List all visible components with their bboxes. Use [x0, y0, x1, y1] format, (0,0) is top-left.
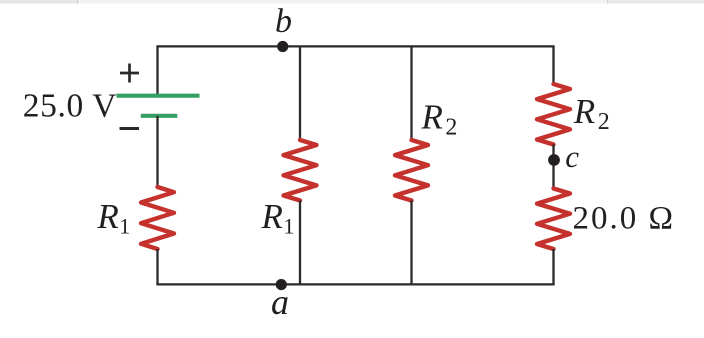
- wire branch 2 top (top wire to R1 mid): [299, 46, 301, 140]
- battery plus sign: [120, 64, 139, 83]
- svg-text:a: a: [271, 282, 289, 322]
- top gray bar divider 2: [607, 0, 608, 4]
- resistor R1 left (zigzag): [141, 187, 174, 249]
- wire right branch top (top wire to R2 right): [552, 46, 554, 84]
- wire branch 2 bottom (R1 mid to bottom wire): [299, 201, 301, 285]
- resistor 20.0 ohm right (zigzag): [537, 189, 570, 250]
- top gray bar left segment: [0, 0, 77, 4]
- svg-text:20.0 Ω: 20.0 Ω: [573, 201, 676, 237]
- battery B1 negative short plate: [141, 114, 178, 118]
- wire battery - plate to resistor R1 left: [156, 116, 158, 187]
- resistor R2 right (zigzag): [537, 84, 570, 145]
- wire R1 left to bottom wire: [156, 249, 158, 284]
- node a dot: [276, 279, 287, 290]
- svg-text:c: c: [565, 139, 579, 174]
- top gray bar middle segment: [78, 0, 607, 4]
- resistor R2 middle (zigzag): [395, 140, 428, 201]
- top gray bar divider 1: [77, 0, 78, 4]
- node b dot: [277, 41, 288, 52]
- wire top from node b row: left corner to right corner: [156, 45, 554, 47]
- svg-text:25.0 V: 25.0 V: [23, 88, 117, 125]
- wire branch 3 top (top wire to R2 mid): [410, 46, 412, 140]
- svg-text:b: b: [275, 3, 292, 40]
- battery minus sign: [120, 127, 140, 130]
- battery B1 (25.0 V) positive long plate: [117, 94, 200, 98]
- node c dot: [548, 154, 560, 166]
- wire left branch top (top wire down to battery + plate): [156, 46, 158, 95]
- top gray bar right segment: [608, 0, 704, 4]
- wire branch 3 bottom (R2 mid to bottom wire): [410, 201, 412, 285]
- wire bottom from node a row: [156, 283, 554, 285]
- resistor R1 middle (zigzag): [284, 140, 317, 201]
- wire 20.0 ohm resistor to bottom wire: [552, 249, 554, 284]
- wire R2 right to node c: [552, 145, 554, 189]
